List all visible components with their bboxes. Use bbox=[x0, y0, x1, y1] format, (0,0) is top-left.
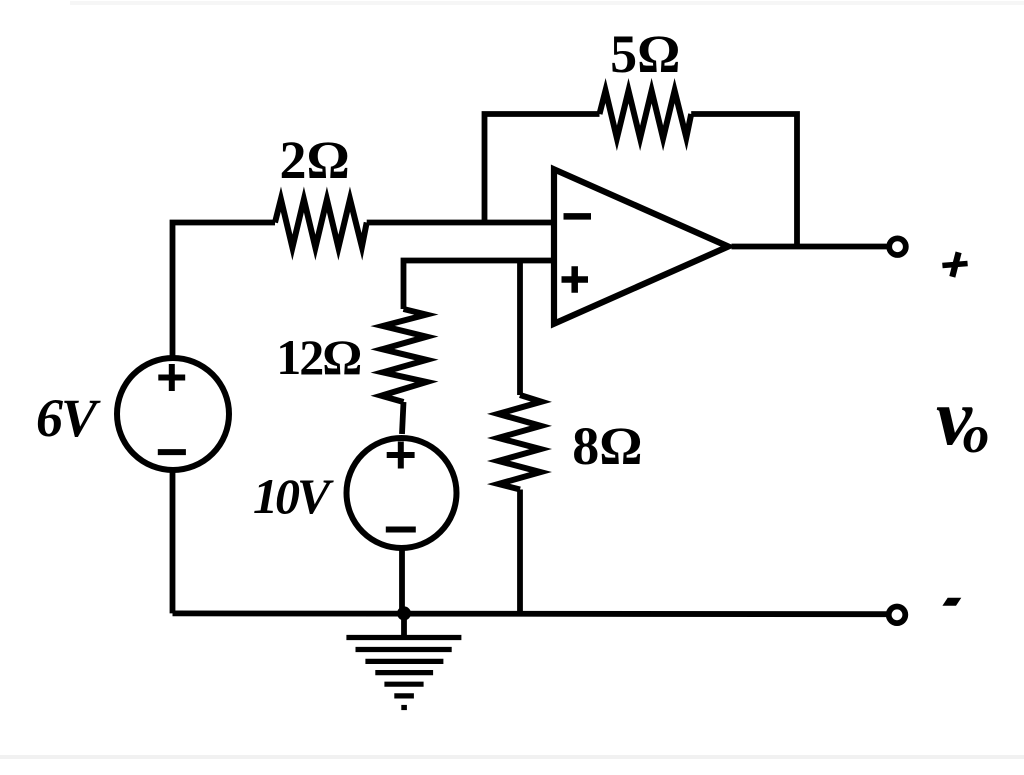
terminal + output bbox=[889, 238, 906, 255]
ground bbox=[346, 638, 461, 708]
wire feedback left vertical bbox=[485, 114, 600, 223]
svg-text:12Ω: 12Ω bbox=[276, 329, 360, 385]
wire 10V source to bottom node bbox=[399, 551, 405, 614]
wire 2Ω to op-amp inverting input bbox=[367, 220, 554, 226]
resistor 2Ω bbox=[275, 199, 367, 248]
wire op-amp output to terminal bbox=[732, 244, 887, 250]
terminal - output bbox=[889, 607, 906, 624]
resistor 12Ω bbox=[381, 309, 427, 402]
wire op-amp noninverting input to 12Ω bbox=[404, 261, 554, 310]
wire 6V bottom bbox=[170, 472, 176, 614]
svg-text:10V: 10V bbox=[253, 468, 334, 524]
svg-text:2Ω: 2Ω bbox=[280, 130, 350, 190]
wire noninverting input to 8Ω bbox=[517, 261, 523, 396]
label + terminal bbox=[942, 264, 967, 266]
wire 12Ω to 10V source bbox=[402, 402, 404, 434]
label - terminal bbox=[942, 598, 961, 606]
resistor 8Ω bbox=[498, 395, 541, 490]
wire bottom rail bbox=[173, 611, 887, 618]
svg-text:6V: 6V bbox=[36, 388, 101, 448]
scan smudge bottom bbox=[0, 755, 1024, 759]
resistor 5Ω bbox=[600, 91, 692, 139]
node junction bottom bbox=[397, 606, 411, 620]
op-amp U1 bbox=[554, 169, 728, 323]
svg-text:8Ω: 8Ω bbox=[572, 416, 642, 476]
wire 6V top to 2Ω left bbox=[173, 223, 276, 358]
voltage source 6V bbox=[117, 358, 229, 470]
voltage source 10V bbox=[347, 438, 457, 548]
wire feedback right vertical to output node bbox=[691, 114, 797, 247]
scan smudge top bbox=[70, 1, 1024, 5]
svg-text:o: o bbox=[963, 406, 990, 464]
wire 8Ω to bottom wire bbox=[517, 490, 523, 614]
svg-text:5Ω: 5Ω bbox=[610, 24, 680, 84]
wire ground stub bbox=[401, 613, 407, 636]
